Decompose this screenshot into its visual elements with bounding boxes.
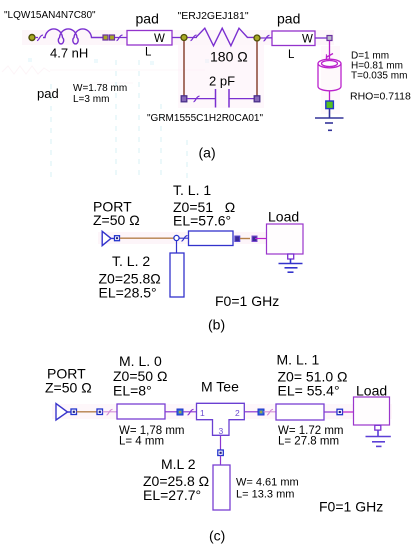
svg-text:RHO=0.7118: RHO=0.7118 (350, 91, 411, 103)
svg-text:pad: pad (37, 86, 59, 101)
svg-text:T. L. 1: T. L. 1 (173, 182, 211, 198)
svg-text:2: 2 (235, 408, 240, 418)
pin square: capacitor left (181, 96, 187, 102)
svg-text:1: 1 (200, 408, 205, 418)
wire: ML1 to square (324, 411, 337, 413)
svg-text:M. L. 1: M. L. 1 (277, 352, 320, 368)
port P1 triangle b (102, 231, 114, 245)
svg-text:L= 4 mm: L= 4 mm (119, 436, 164, 448)
wire: input to inductor with break (35, 35, 43, 40)
pin square: via top (327, 36, 332, 41)
wire: down to via with break (326, 41, 333, 60)
microstrip ML0 rect (117, 404, 165, 419)
svg-text:Load: Load (356, 383, 387, 399)
wire: via to ground pin (329, 91, 331, 101)
wire: cap right (229, 98, 254, 100)
node: junction 2 olive circle (254, 35, 260, 41)
svg-text:L= 13.3 mm: L= 13.3 mm (236, 489, 294, 501)
svg-text:W: W (302, 34, 313, 46)
pin square: load ground pin c (375, 425, 381, 430)
svg-text:M. L. 0: M. L. 0 (119, 353, 162, 369)
node: input terminal circle (29, 35, 35, 41)
wire: left vertical brown (183, 41, 185, 96)
ghost: dashed grid lines (51, 60, 187, 180)
transmission line TL1 rect (189, 231, 234, 246)
pin square: inductor output b (110, 35, 115, 40)
node: junction open circle b (174, 235, 179, 240)
pad P1 rectangle (127, 31, 172, 46)
wire: tan segment c (77, 411, 98, 413)
wire: to load box (255, 238, 267, 240)
svg-text:(b): (b) (208, 317, 225, 333)
microstrip ML1 rect (276, 404, 324, 420)
pin square: inductor output a (103, 35, 108, 40)
svg-text:F0=1 GHz: F0=1 GHz (319, 499, 383, 515)
load box b (267, 224, 304, 254)
wire: tee pin3 down (220, 436, 222, 450)
svg-text:3: 3 (219, 426, 224, 436)
capacitor C1 plates (216, 89, 230, 108)
port P1 triangle c (56, 404, 71, 421)
pin square: load input c (337, 409, 343, 415)
resistor R1 zigzag (196, 28, 254, 46)
pin square: tee input green (177, 409, 183, 415)
halo: pink jpeg halo around row (22, 30, 340, 114)
ground: section b (279, 259, 303, 272)
halo: pink halo row b (98, 232, 268, 244)
svg-text:T=0.035 mm: T=0.035 mm (351, 70, 407, 81)
halo: pink halo row c (52, 404, 392, 419)
svg-text:pad: pad (136, 11, 159, 27)
wire: node1 to resistor with break (188, 35, 198, 40)
svg-text:2 pF: 2 pF (209, 74, 235, 89)
wire: to stub (220, 456, 222, 466)
svg-text:W=1.78 mm: W=1.78 mm (73, 83, 127, 94)
pin square: ML0 input (97, 409, 103, 415)
pin square: stub input (218, 450, 224, 456)
pin square: load input magenta (252, 236, 257, 242)
svg-text:(c): (c) (209, 528, 225, 544)
wire: to ML1 with break (264, 409, 277, 414)
node: junction 1 olive circle (181, 35, 187, 41)
load box c (354, 397, 390, 425)
svg-text:180 Ω: 180 Ω (210, 49, 248, 65)
svg-text:(a): (a) (199, 145, 216, 161)
svg-text:EL=28.5°: EL=28.5° (99, 285, 157, 301)
via V1 cylinder (318, 59, 341, 91)
ground: section c (366, 430, 391, 446)
pin square: TL1 right (235, 236, 240, 242)
microstrip ML2 stub rect (213, 465, 230, 510)
svg-text:L= 27.8 mm: L= 27.8 mm (278, 436, 339, 448)
pin square: ML1 input (258, 409, 264, 415)
pin square: capacitor right (254, 96, 260, 102)
svg-text:pad: pad (277, 11, 300, 27)
svg-text:M Tee: M Tee (201, 379, 239, 395)
svg-text:W= 4.61 mm: W= 4.61 mm (236, 477, 299, 489)
wire: cap left with break (187, 96, 215, 101)
pad P2 rectangle (272, 31, 315, 46)
wire: to tee with break (183, 409, 196, 414)
svg-text:Load: Load (268, 209, 299, 225)
svg-text:Z=50 Ω: Z=50 Ω (93, 212, 140, 228)
inductor L1 4.7 nH (43, 29, 103, 44)
ghost: faint background traces (2, 58, 209, 83)
svg-text:"LQW15AN4N7C80": "LQW15AN4N7C80" (4, 10, 96, 21)
pin square: load ground pin b (288, 254, 294, 259)
wire: TL1 to load square tan (240, 238, 250, 240)
pin square: port output b (115, 236, 120, 241)
M Tee body polygon (197, 403, 245, 435)
svg-text:4.7 nH: 4.7 nH (50, 46, 88, 61)
svg-text:EL= 55.4°: EL= 55.4° (278, 383, 340, 399)
pin square: green layout pin (326, 101, 334, 109)
svg-text:L: L (145, 47, 152, 59)
svg-text:M.L 2: M.L 2 (161, 456, 196, 472)
wire: port to junction tan (120, 237, 174, 239)
svg-text:"ERJ2GEJ181": "ERJ2GEJ181" (178, 10, 249, 22)
wire: right vertical brown (256, 42, 258, 96)
svg-text:L=3 mm: L=3 mm (73, 94, 109, 105)
svg-text:T. L. 2: T. L. 2 (112, 253, 150, 269)
ground: section a (315, 109, 344, 131)
wire: pad2 to via pin (315, 37, 327, 39)
svg-text:EL=57.6°: EL=57.6° (173, 213, 231, 229)
svg-text:F0=1 GHz: F0=1 GHz (215, 293, 279, 309)
svg-text:L: L (288, 49, 295, 61)
wire: to load box c (343, 411, 354, 413)
wire: ML0 to tee pin (165, 411, 177, 413)
wire: tee pin2 to square (245, 411, 259, 413)
pin square: port output c (71, 409, 77, 415)
wire: to pad1 with break (115, 35, 127, 40)
svg-text:W: W (154, 33, 165, 45)
wire: junction to TL1 with break (179, 236, 188, 241)
wire: node2 to pad2 with break (261, 35, 273, 40)
svg-text:Z=50 Ω: Z=50 Ω (45, 380, 92, 396)
wire: junction down to stub (176, 240, 178, 253)
svg-text:"GRM1555C1H2R0CA01": "GRM1555C1H2R0CA01" (147, 113, 263, 124)
transmission line TL2 stub rect (170, 253, 184, 297)
wire: to ML0 with break (103, 409, 118, 414)
svg-text:EL=8°: EL=8° (113, 383, 152, 399)
svg-text:EL=27.7°: EL=27.7° (143, 487, 201, 503)
wire: pad1 to node 1 (172, 37, 181, 39)
